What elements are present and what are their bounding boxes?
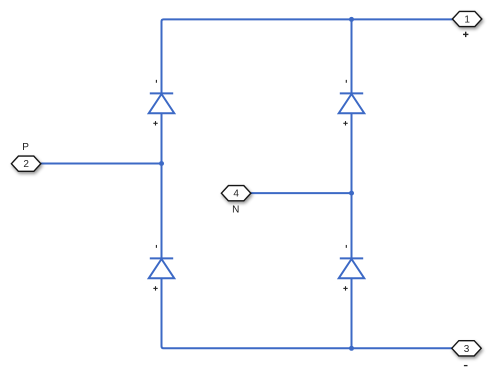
svg-text:4: 4 (233, 189, 239, 200)
svg-text:P: P (22, 142, 29, 153)
svg-text:N: N (232, 205, 239, 216)
svg-text:1: 1 (464, 15, 470, 26)
svg-text:3: 3 (464, 344, 470, 355)
svg-text:2: 2 (23, 159, 29, 170)
